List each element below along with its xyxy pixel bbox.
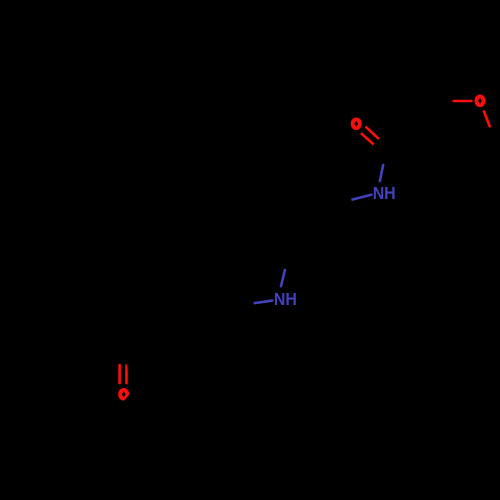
atom O1 (ether oxygen, oxane ring) — [475, 94, 486, 107]
wire: double bond C12=O3 line 1 (black half) — [118, 347, 121, 365]
bond C3-C7 carbonyl carbon (black) — [390, 140, 414, 150]
wire: bond C10-N2 (black half) — [285, 253, 289, 270]
oxane ring (black, carbon bonds) — [414, 101, 496, 180]
svg-text:NH: NH — [373, 183, 396, 203]
wire: bond C10-N2 (blue half) — [281, 270, 285, 286]
wire: double bond C7=O2 line 2 (black half) — [374, 144, 385, 155]
wire: double bond C12=O3 line 2 (black half) — [125, 347, 128, 365]
wire: bond N2-C11 (blue half) — [254, 301, 273, 304]
wire: double bond C7=O2 line 1 (red half) — [366, 127, 379, 139]
wire: double bond C7=O2 line 1 (black half) — [379, 139, 390, 150]
chain C8-C9-C10 (black) — [289, 205, 331, 253]
atom O2 (amide carbonyl oxygen) — [351, 117, 362, 130]
wire: bond C2-O1 (red half) — [454, 100, 472, 103]
wire: double bond C12=O3 line 1 (red half) — [118, 365, 121, 383]
svg-text:NH: NH — [274, 289, 297, 309]
atom O3 (ketone oxygen) — [118, 388, 129, 401]
benzene ring (black) — [146, 276, 234, 360]
wire: double bond C12=O3 line 2 (red half) — [125, 365, 128, 383]
bond ring-C12 ketone carbon (black) — [123, 330, 146, 347]
wire: bond C7-N1 (blue half) — [380, 165, 383, 181]
wire: bond N1-C8 (blue half) — [351, 195, 371, 200]
wire: bond O1-C6 (red half) — [484, 111, 490, 126]
wire: double bond C7=O2 line 2 (red half) — [362, 134, 374, 145]
wire: bond N1-C8 (black half) — [331, 200, 351, 205]
wire: bond N2-C11 (black half) — [234, 303, 254, 306]
cyclohexyl ring (black) — [48, 340, 135, 424]
wire: bond C7-N1 (black half) — [383, 150, 390, 165]
